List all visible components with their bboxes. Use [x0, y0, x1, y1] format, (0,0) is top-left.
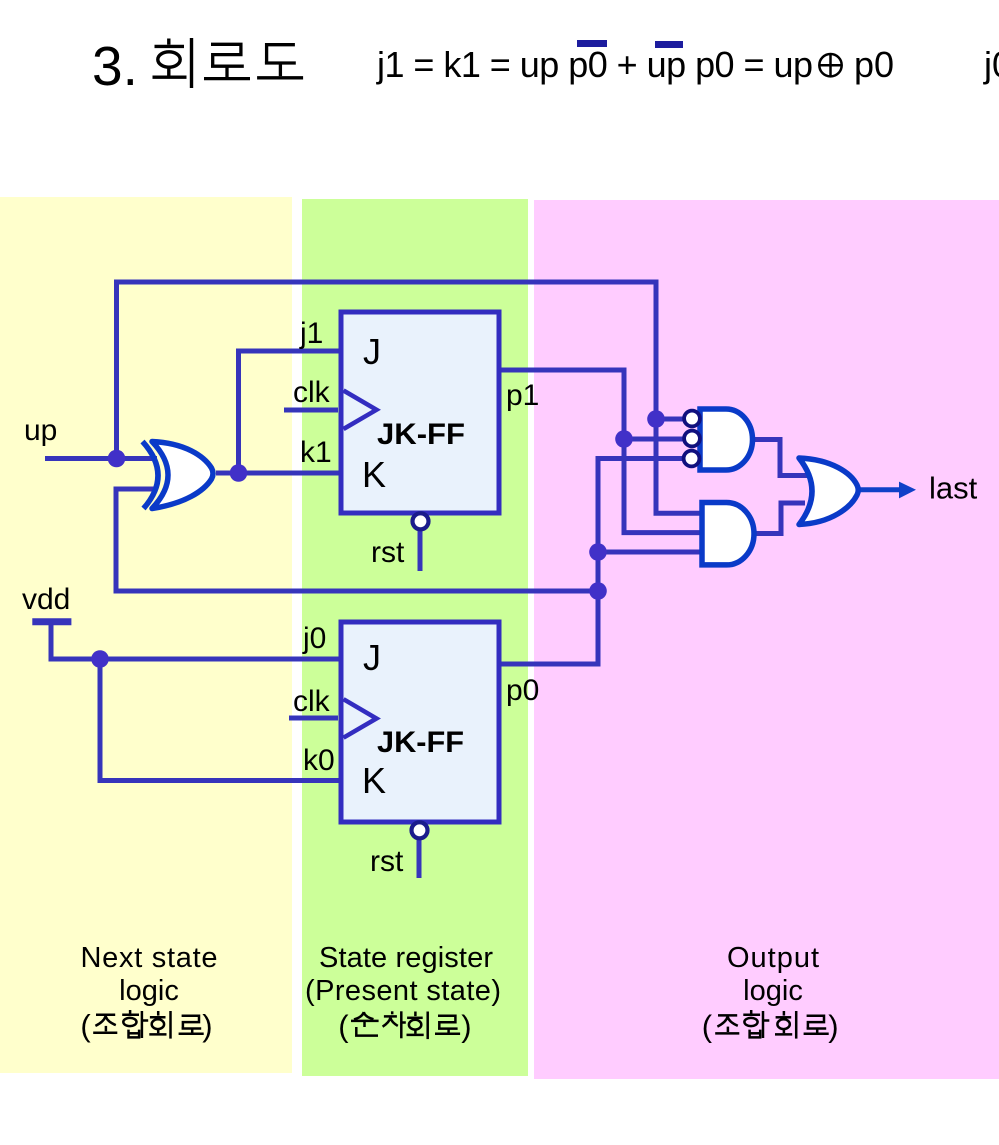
clock triangle U6 [344, 699, 377, 738]
arrowhead on last output [899, 482, 916, 499]
svg-text:(: ( [338, 1009, 349, 1044]
wire: p1 output to bubble b and AND2 input b [499, 370, 702, 533]
svg-text:logic: logic [119, 975, 179, 1007]
flip-flop U5 JK-FF box [341, 312, 499, 513]
svg-text:j1: j1 [299, 317, 323, 350]
footer pink hangul 조합회로 [715, 1010, 828, 1039]
wire: clk1 stub [284, 408, 338, 413]
wire: OR output [857, 487, 901, 492]
svg-text:k0: k0 [303, 744, 335, 777]
svg-text:J: J [363, 637, 381, 678]
svg-text:last: last [929, 471, 978, 506]
wire: xor output to k1 [216, 471, 341, 476]
wire: AND1 output to OR input 1 [753, 440, 807, 476]
and gate U3 [702, 503, 754, 565]
wire: stub to bubble b [624, 437, 683, 442]
svg-text:vdd: vdd [22, 583, 70, 616]
title glyph 도 [257, 45, 303, 78]
node: xor output junction [230, 464, 248, 482]
junction dots [91, 410, 665, 668]
band: next-state-logic region (yellow) [0, 197, 292, 1073]
svg-text:rst: rst [371, 536, 405, 569]
svg-text:JK-FF: JK-FF [377, 418, 465, 451]
band: state-register region (green) [302, 199, 528, 1076]
svg-text:K: K [362, 454, 386, 495]
wire: rst1 stub [418, 529, 423, 571]
svg-text:p0: p0 [854, 44, 894, 85]
node: up rail junction at AND1 [647, 410, 665, 428]
svg-text:Next state: Next state [81, 942, 218, 974]
band: output-logic region (pink) [534, 200, 999, 1079]
wire: stub to bubble a [656, 417, 684, 422]
clock triangle U5 [344, 391, 377, 430]
svg-text:State register: State register [319, 942, 493, 974]
rst bubble U5 [413, 513, 429, 529]
wire: p0 to AND2 input c [598, 550, 702, 555]
wire: xor lower input from p0 rail [116, 489, 598, 591]
svg-text:j1 = k1 = up p0 + up p0 = up: j1 = k1 = up p0 + up p0 = up [376, 44, 813, 85]
svg-text:k1: k1 [300, 436, 332, 469]
formula overbar 2 [655, 41, 683, 48]
wire: AND2 output to OR input 2 [755, 503, 806, 534]
wire: p0 riser to bubble c [499, 459, 683, 665]
vdd power symbol [32, 618, 71, 625]
svg-text:): ) [828, 1009, 838, 1044]
inverter bubble a [684, 411, 700, 427]
svg-text:j0: j0 [983, 44, 999, 85]
svg-text:(: ( [702, 1009, 713, 1044]
rst bubble U6 [412, 822, 428, 838]
svg-text:j0: j0 [302, 622, 326, 655]
footer yellow hangul 조합회로 [93, 1010, 204, 1039]
node: up junction [108, 450, 126, 468]
wire: clk0 stub [289, 716, 338, 721]
and gate U2 (3 inverted inputs) [700, 409, 753, 470]
footer green hangul 순차회로 [351, 1011, 460, 1039]
svg-text:): ) [202, 1008, 212, 1043]
or gate U4 [799, 458, 858, 525]
svg-text:up: up [24, 414, 57, 447]
title glyph 로 [204, 44, 250, 78]
flip-flop U6 JK-FF box [341, 622, 499, 822]
svg-text:(Present state): (Present state) [305, 975, 501, 1007]
svg-text:clk: clk [293, 685, 331, 718]
wire: rst0 stub [417, 838, 422, 878]
svg-text:p1: p1 [506, 379, 539, 412]
wire: vdd to j0 [51, 622, 341, 659]
formula xor symbol [819, 54, 842, 77]
footer pink: Output logic [702, 942, 839, 1044]
wire: up to top rail and down to AND1 input a [117, 282, 703, 513]
svg-text:logic: logic [743, 975, 803, 1007]
svg-text:clk: clk [293, 376, 331, 409]
xor gate U1 [143, 442, 214, 509]
wire: up input [45, 456, 157, 461]
svg-text:Output: Output [727, 942, 819, 974]
svg-text:(: ( [80, 1008, 91, 1043]
svg-text:J: J [363, 331, 381, 372]
svg-text:3.: 3. [92, 35, 138, 97]
formula overbar 1 [577, 40, 607, 47]
inverter bubble c [684, 451, 700, 467]
node: p0 junction lower [589, 582, 607, 600]
svg-text:JK-FF: JK-FF [377, 726, 464, 759]
node: vdd junction [91, 650, 109, 668]
wire: j1 branch [239, 351, 342, 473]
node: p0 junction upper [589, 543, 607, 561]
footer green: State register [305, 942, 501, 1044]
svg-text:rst: rst [370, 845, 404, 878]
node: p1 junction [615, 430, 633, 448]
title glyph 회 [153, 38, 192, 88]
inverter bubble b [684, 431, 700, 447]
wire: vdd branch to k0 [100, 659, 341, 781]
svg-text:p0: p0 [506, 674, 539, 707]
svg-text:K: K [362, 760, 386, 801]
svg-text:): ) [461, 1009, 471, 1044]
footer yellow: Next state logic [80, 942, 217, 1043]
